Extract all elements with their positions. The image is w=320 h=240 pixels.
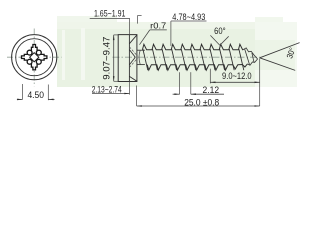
svg-text:4.78~4.93: 4.78~4.93 [172,12,205,23]
dim 2.12 pitch [179,72,181,94]
svg-text:9.07~9.47: 9.07~9.47 [101,37,112,80]
centerline vertical (front view) [33,29,35,87]
head bottom chamfer diagonal [129,76,137,81]
svg-text:r0.7: r0.7 [150,20,166,30]
phillips recess cross [22,45,47,70]
svg-text:2.13~2.74: 2.13~2.74 [92,84,122,95]
dim 4.50 dimension lines [17,98,23,100]
dim 4.78~4.93 [171,20,207,22]
dim 9.07~9.47 [114,34,119,36]
dim 4.50 extension lines [21,84,23,100]
head inner circle [16,39,53,76]
svg-text:60°: 60° [214,26,226,36]
thread profile teeth [142,44,247,70]
point angle 30 deg lines [260,43,300,58]
thread runout arc [139,50,140,64]
svg-text:2.12: 2.12 [203,85,220,95]
thread helix lines [143,49,244,70]
recess cone hidden line lower [129,58,137,67]
head outline [118,35,137,82]
thread angle 60 deg callout [210,35,219,45]
head top chamfer diagonal [129,35,137,44]
taper helix lines [245,49,254,65]
recess cone line lower [129,57,135,65]
dim 2.13~2.74 [129,82,131,95]
screw point taper top [243,48,258,59]
phillips recess center diamond [30,53,39,62]
leader r0.7 [150,29,167,31]
axis centerline (side view) [113,56,262,58]
centerline horizontal (front view) [7,56,62,58]
svg-text:25.0 ±0.8: 25.0 ±0.8 [184,97,219,108]
dim 1.65~1.91 [90,17,130,19]
svg-text:9.0~12.0: 9.0~12.0 [222,71,252,82]
svg-text:1.65~1.91: 1.65~1.91 [94,9,126,20]
head inner vertical [128,35,130,82]
recess cone line upper [129,50,135,58]
watermark band [57,22,257,87]
head outer circle [12,35,57,80]
neck root lines [137,49,145,51]
recess cone hidden line upper [129,47,137,56]
svg-text:4.50: 4.50 [27,89,44,100]
dim 25.0 +-0.8 [136,86,138,107]
phillips recess corner rings [27,50,41,64]
dim 9.0~12.0 [209,69,211,84]
screw point taper bottom [247,59,257,65]
